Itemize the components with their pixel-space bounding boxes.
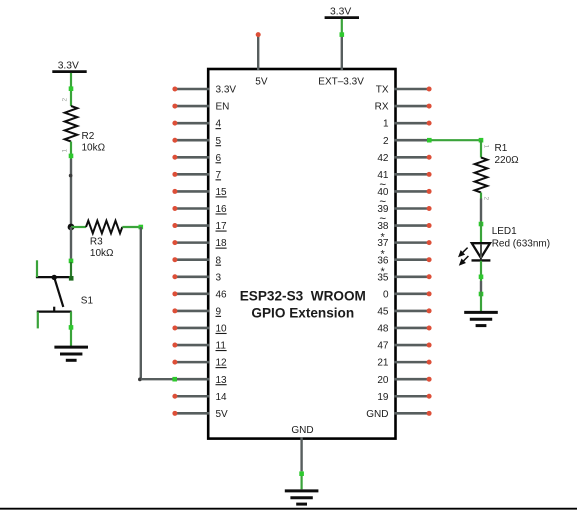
wire R3 down to pin13 row (gray) <box>140 227 142 379</box>
svg-text:RX: RX <box>375 102 389 113</box>
S1 top-left leg (green) <box>36 260 38 277</box>
unconnected terminal dot pin 8 (left 11) <box>172 257 177 262</box>
svg-text:1: 1 <box>383 119 389 130</box>
wire stub pin 18 (left 10) <box>175 241 210 244</box>
svg-text:10: 10 <box>216 324 228 335</box>
svg-text:220Ω: 220Ω <box>495 155 520 166</box>
svg-text:*: * <box>381 249 386 261</box>
wire stub pin 1 (right 3) <box>395 122 430 125</box>
svg-text:~: ~ <box>379 197 386 209</box>
unconnected terminal dot pin 20 (right 18) <box>427 377 432 382</box>
LED1 cathode bar <box>472 259 491 261</box>
wire 3.3V flag to R2 (green) <box>70 73 72 106</box>
wire stub pin 37 (right 10) <box>395 241 430 244</box>
wire down to R1 (green) <box>480 140 482 157</box>
wire stub pin 17 (left 9) <box>175 224 210 227</box>
svg-text:3.3V: 3.3V <box>216 85 237 96</box>
wire stub pin 5 (left 4) <box>175 139 210 142</box>
svg-text:LED1: LED1 <box>492 226 517 237</box>
svg-text:*: * <box>381 266 386 278</box>
wire stub pin GND (right 20) <box>395 412 430 415</box>
wire stub pin 0 (right 13) <box>395 293 430 296</box>
unconnected terminal dot pin 41 (right 6) <box>427 172 432 177</box>
wire R2 bottom (green) <box>70 142 72 160</box>
svg-text:5V: 5V <box>255 77 268 88</box>
svg-text:47: 47 <box>377 341 389 352</box>
connection square at wire corner <box>479 138 484 143</box>
connection square GND wire <box>299 471 304 476</box>
ground symbol below S1 <box>54 347 88 360</box>
underline for pin 13 <box>216 384 227 386</box>
unconnected terminal dot pin 3 (left 12) <box>172 274 177 279</box>
underline for pin 7 <box>216 179 222 181</box>
wire stub pin 40 (right 7) <box>395 190 430 193</box>
wire stub pin 48 (right 15) <box>395 327 430 330</box>
svg-text:~: ~ <box>379 180 386 192</box>
wire R3 right (green) <box>122 226 141 228</box>
frame border line at bottom <box>0 508 577 510</box>
wire to pin 13 (gray) <box>141 378 175 380</box>
wire stub pin RX (right 2) <box>395 105 430 108</box>
unconnected terminal dot pin 11 (left 16) <box>172 343 177 348</box>
svg-text:1: 1 <box>483 145 490 149</box>
unconnected terminal dot pin 9 (left 14) <box>172 308 177 313</box>
wire stub pin 36 (right 11) <box>395 258 430 261</box>
svg-text:GND: GND <box>366 409 388 420</box>
wire bendpoint dot <box>69 174 73 178</box>
svg-text:2: 2 <box>61 98 68 102</box>
IC U1 ESP32-S3 WROOM GPIO Extension body <box>208 69 395 439</box>
wire stub pin 9 (left 14) <box>175 310 210 313</box>
svg-text:3: 3 <box>216 272 222 283</box>
svg-text:3.3V: 3.3V <box>330 6 351 17</box>
connection square LED1 cathode <box>479 275 484 280</box>
wire stub pin 8 (left 11) <box>175 258 210 261</box>
svg-text:S1: S1 <box>81 296 94 307</box>
svg-text:20: 20 <box>377 375 389 386</box>
wire stub pin 46 (left 13) <box>175 293 210 296</box>
svg-text:R1: R1 <box>495 143 508 154</box>
connection square R2 bottom <box>69 154 74 159</box>
svg-text:*: * <box>381 232 386 244</box>
svg-text:48: 48 <box>377 324 389 335</box>
svg-text:0: 0 <box>383 289 389 300</box>
unconnected terminal dot pin 7 (left 6) <box>172 172 177 177</box>
underline for pin 17 <box>216 230 227 232</box>
wire stub pin 42 (right 5) <box>395 156 430 159</box>
wire stub pin 39 (right 8) <box>395 207 430 210</box>
unconnected terminal dot 5V top pin <box>256 32 261 37</box>
connection square LED1 anode wire <box>479 222 484 227</box>
resistor R2 10k zigzag <box>65 106 78 142</box>
wire stub pin 10 (left 15) <box>175 327 210 330</box>
svg-text:14: 14 <box>216 392 228 403</box>
unconnected terminal dot pin 21 (right 17) <box>427 360 432 365</box>
unconnected terminal dot pin 39 (right 8) <box>427 206 432 211</box>
node A junction dot <box>68 224 75 231</box>
svg-text:GND: GND <box>291 425 313 436</box>
svg-text:GPIO Extension: GPIO Extension <box>251 306 354 321</box>
wire pin 2 to R1 (green) <box>428 139 481 141</box>
svg-text:R2: R2 <box>82 131 95 142</box>
wire stub pin EN (left 2) <box>175 105 210 108</box>
connection square at pin 13 <box>172 377 177 382</box>
power flag 3.3V (top center) <box>325 6 359 17</box>
wire GND pin down (gray) <box>300 438 302 472</box>
S1 top-right terminal square (dark) <box>69 276 74 281</box>
svg-text:Red (633nm): Red (633nm) <box>492 238 550 249</box>
wire stub pin 3 (left 12) <box>175 275 210 278</box>
unconnected terminal dot pin 5V (left 20) <box>172 411 177 416</box>
svg-text:2: 2 <box>383 136 389 147</box>
resistor R1 220 ohm zigzag <box>475 158 488 193</box>
unconnected terminal dot pin 5 (left 4) <box>172 138 177 143</box>
pin 5V (top) stub <box>257 35 259 70</box>
wire stub pin 47 (right 16) <box>395 344 430 347</box>
unconnected terminal dot pin 46 (left 13) <box>172 291 177 296</box>
wire stub pin 11 (left 16) <box>175 344 210 347</box>
wire stub pin 15 (left 7) <box>175 190 210 193</box>
svg-text:R3: R3 <box>90 236 103 247</box>
svg-text:46: 46 <box>216 289 228 300</box>
wire stub pin 45 (right 14) <box>395 310 430 313</box>
wire bendpoint dot at corner <box>138 378 142 382</box>
connection square ground wire <box>479 292 484 297</box>
svg-text:1: 1 <box>61 149 68 153</box>
unconnected terminal dot pin 18 (left 10) <box>172 240 177 245</box>
unconnected terminal dot pin EN (left 2) <box>172 104 177 109</box>
wire stub pin 19 (right 19) <box>395 395 430 398</box>
unconnected terminal dot pin 47 (right 16) <box>427 343 432 348</box>
pin EXT-3.3V (top) stub <box>341 36 343 70</box>
unconnected terminal dot pin 45 (right 14) <box>427 308 432 313</box>
unconnected terminal dot pin 6 (left 5) <box>172 155 177 160</box>
svg-text:19: 19 <box>377 392 389 403</box>
wire stub pin TX (right 1) <box>395 88 430 91</box>
svg-text:45: 45 <box>377 307 389 318</box>
switch S1 pushbutton symbol <box>36 262 72 312</box>
unconnected terminal dot pin 4 (left 3) <box>172 121 177 126</box>
unconnected terminal dot pin 42 (right 5) <box>427 155 432 160</box>
svg-text:10kΩ: 10kΩ <box>90 248 114 259</box>
connection square at pin 2 <box>427 138 432 143</box>
unconnected terminal dot pin 1 (right 3) <box>427 121 432 126</box>
underline for pin 11 <box>216 350 227 352</box>
underline for pin 4 <box>216 128 222 130</box>
wire into LED1 anode (green) <box>480 221 482 243</box>
connection square R3 right corner <box>139 225 144 230</box>
resistor R3 10k zigzag <box>86 221 122 234</box>
connection square S1 bottom terminal <box>69 325 74 330</box>
underline for pin 15 <box>216 196 227 198</box>
wire GND pin down (green) <box>301 471 303 489</box>
ground symbol below IC <box>285 491 319 504</box>
wire stub pin 13 (left 18) <box>175 378 210 381</box>
underline for pin 12 <box>216 367 227 369</box>
LED1 diode symbol <box>472 243 490 258</box>
unconnected terminal dot pin 48 (right 15) <box>427 325 432 330</box>
wire R1 to LED1 (gray) <box>480 199 482 222</box>
connection square EXT-3.3V wire <box>340 32 345 37</box>
S1 bottom-left leg (green) <box>37 312 39 329</box>
wire R1 bottom (green) <box>480 193 482 199</box>
unconnected terminal dot pin 12 (left 17) <box>172 360 177 365</box>
wire stub pin 3.3V (left 1) <box>175 88 210 91</box>
underline for pin 8 <box>216 264 222 266</box>
wire LED1 cathode down (green) <box>480 261 482 281</box>
wire node A to R3 (green) <box>71 226 86 228</box>
svg-text:5V: 5V <box>216 409 229 420</box>
svg-text:EN: EN <box>216 102 230 113</box>
unconnected terminal dot pin 15 (left 7) <box>172 189 177 194</box>
wire stub pin 2 (right 4) <box>395 139 430 142</box>
unconnected terminal dot pin 37 (right 10) <box>427 240 432 245</box>
unconnected terminal dot pin 10 (left 15) <box>172 325 177 330</box>
unconnected terminal dot pin 17 (left 9) <box>172 223 177 228</box>
wire stub pin 21 (right 17) <box>395 361 430 364</box>
unconnected terminal dot pin 14 (left 19) <box>172 394 177 399</box>
wire stub pin 14 (left 19) <box>175 395 210 398</box>
unconnected terminal dot pin 40 (right 7) <box>427 189 432 194</box>
wire stub pin 5V (left 20) <box>175 412 210 415</box>
wire stub pin 20 (right 18) <box>395 378 430 381</box>
svg-text:ESP32-S3 WROOM: ESP32-S3 WROOM <box>240 289 366 304</box>
ground symbol below LED1 <box>464 312 498 325</box>
wire stub pin 4 (left 3) <box>175 122 210 125</box>
wire stub pin 7 (left 6) <box>175 173 210 176</box>
svg-text:42: 42 <box>377 153 389 164</box>
wire stub pin 38 (right 9) <box>395 224 430 227</box>
svg-text:10kΩ: 10kΩ <box>82 143 106 154</box>
unconnected terminal dot pin RX (right 2) <box>427 104 432 109</box>
wire LED1 to ground (gray) <box>480 281 482 292</box>
unconnected terminal dot pin 36 (right 11) <box>427 257 432 262</box>
wire through LED1 body (gray) <box>480 245 482 259</box>
underline for pin 9 <box>216 315 222 317</box>
svg-text:8: 8 <box>216 255 222 266</box>
connection square 3.3V-R2 wire <box>69 86 74 91</box>
wire stub pin 16 (left 8) <box>175 207 210 210</box>
wire stub pin 41 (right 6) <box>395 173 430 176</box>
underline for pin 18 <box>216 247 227 249</box>
unconnected terminal dot pin 3.3V (left 1) <box>172 87 177 92</box>
underline for pin 10 <box>216 332 227 334</box>
svg-text:TX: TX <box>376 85 389 96</box>
unconnected terminal dot pin 0 (right 13) <box>427 291 432 296</box>
svg-text:~: ~ <box>379 214 386 226</box>
wire 3.3V flag to EXT-3.3V (green) <box>341 19 343 33</box>
unconnected terminal dot pin 38 (right 9) <box>427 223 432 228</box>
svg-text:2: 2 <box>483 197 490 201</box>
underline for pin 6 <box>216 162 222 164</box>
LED1 emission arrows <box>459 248 468 265</box>
svg-text:3.3V: 3.3V <box>58 60 79 71</box>
underline for pin 16 <box>216 213 227 215</box>
unconnected terminal dot pin TX (right 1) <box>427 87 432 92</box>
underline for pin 5 <box>216 145 222 147</box>
unconnected terminal dot pin GND (right 20) <box>427 411 432 416</box>
wire S1 to ground (green) <box>70 312 72 348</box>
unconnected terminal dot pin 19 (right 19) <box>427 394 432 399</box>
wire to ground symbol (green) <box>480 292 482 313</box>
unconnected terminal dot pin 16 (left 8) <box>172 206 177 211</box>
svg-text:EXT–3.3V: EXT–3.3V <box>318 77 364 88</box>
connection square S1 top-right terminal <box>69 259 74 264</box>
wire R2 to node A (gray) <box>70 159 72 227</box>
wire node A down to S1 (gray) <box>70 227 72 259</box>
wire stub pin 6 (left 5) <box>175 156 210 159</box>
unconnected terminal dot pin 35 (right 12) <box>427 274 432 279</box>
wire stub pin 35 (right 12) <box>395 275 430 278</box>
power flag 3.3V (top left) <box>52 60 86 71</box>
svg-text:21: 21 <box>377 358 389 369</box>
wire stub pin 12 (left 17) <box>175 361 210 364</box>
S1 pivot dot <box>52 275 57 280</box>
